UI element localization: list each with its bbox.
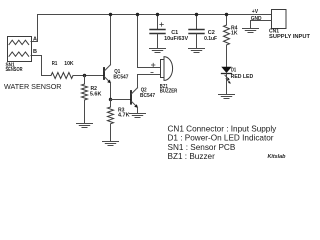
svg-text:4.7K: 4.7K: [118, 112, 130, 118]
svg-text:D1 : Power-On LED Indicator: D1 : Power-On LED Indicator: [168, 134, 274, 143]
junction dot C2 at rail: [195, 13, 198, 16]
resistor R2: [82, 76, 88, 123]
wire buzzer + lead to rail: [138, 15, 161, 68]
buzzer BZ1: [151, 57, 173, 81]
svg-text:+V: +V: [252, 9, 259, 15]
capacitor C2: [189, 15, 204, 48]
transistor Q2: [131, 88, 138, 108]
svg-text:R1: R1: [52, 61, 58, 67]
svg-text:BC547: BC547: [113, 75, 128, 81]
svg-text:BC547: BC547: [140, 93, 155, 99]
wire Q2 collector to buzzer - lead: [137, 75, 139, 88]
svg-text:10K: 10K: [64, 61, 73, 67]
svg-text:A: A: [33, 37, 37, 43]
svg-text:SUPPLY INPUT: SUPPLY INPUT: [269, 34, 310, 40]
junction dot Q1 collector at rail: [109, 13, 112, 16]
svg-text:0.1uF: 0.1uF: [204, 36, 218, 42]
ground (D1): [219, 95, 235, 99]
ground (C1): [150, 49, 166, 53]
svg-text:1K: 1K: [231, 31, 238, 37]
svg-text:GND: GND: [251, 16, 262, 22]
ground (R2): [77, 124, 93, 128]
svg-text:WATER SENSOR: WATER SENSOR: [4, 82, 62, 91]
wire B (sensor B terminal to R1): [31, 56, 51, 76]
capacitor C1: [150, 15, 165, 48]
svg-text:5.6K: 5.6K: [90, 91, 102, 97]
svg-text:BZ1 : Buzzer: BZ1 : Buzzer: [168, 152, 216, 161]
resistor R3: [108, 100, 114, 142]
wire Q1 collector to rail: [110, 15, 112, 65]
svg-text:10uF/63V: 10uF/63V: [164, 36, 188, 42]
wire A (sensor A terminal to rail): [31, 15, 38, 42]
svg-text:RED LED: RED LED: [231, 74, 254, 80]
wire CN1 GND to ground: [251, 21, 272, 29]
junction dot buzzer riser at rail: [136, 13, 139, 16]
wire Q1 emitter to node: [110, 83, 112, 100]
wire R1 to Q1 base: [73, 75, 103, 77]
svg-text:D1: D1: [231, 67, 236, 73]
wire node to Q2 base: [111, 99, 131, 101]
ground (CN1): [243, 29, 259, 33]
wire Q2 emitter to ground: [137, 108, 139, 114]
transistor Q1: [104, 65, 111, 84]
sensor SN1: [8, 37, 32, 62]
svg-text:CN1 Connector : Input Supply: CN1 Connector : Input Supply: [168, 125, 278, 134]
ground (R3): [103, 142, 119, 146]
svg-text:SENSOR: SENSOR: [6, 67, 23, 73]
wire buzzer - lead: [138, 74, 161, 76]
ground (C2): [189, 49, 205, 53]
connector CN1: [272, 10, 287, 29]
svg-text:Kitslab: Kitslab: [268, 154, 287, 160]
svg-text:SN1 : Sensor PCB: SN1 : Sensor PCB: [168, 143, 236, 152]
ground (Q2 emitter): [130, 114, 146, 118]
junction dot R4 at rail: [225, 13, 228, 16]
resistor R4: [224, 15, 230, 67]
node junction dot (emitter/R3/Q2 base): [109, 98, 112, 101]
resistor R1: [51, 73, 73, 79]
svg-text:BUZZER: BUZZER: [160, 89, 178, 95]
node junction dot at R1/R2: [83, 74, 86, 77]
wire +V rail: [38, 14, 272, 16]
svg-text:B: B: [33, 49, 37, 55]
LED D1: [221, 67, 231, 94]
junction dot C1 at rail: [156, 13, 159, 16]
